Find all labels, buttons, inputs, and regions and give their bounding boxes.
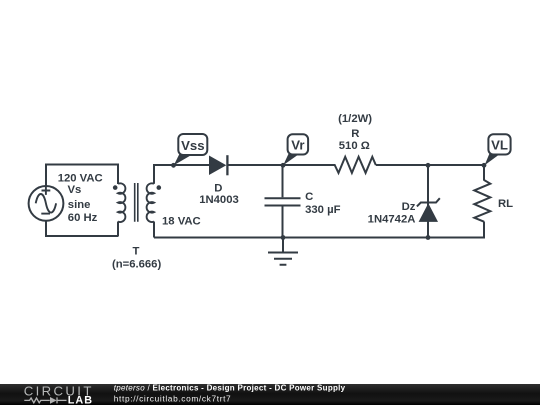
svg-text:120 VAC: 120 VAC xyxy=(58,173,103,185)
resistor RL zigzag xyxy=(474,180,490,222)
wire top of source loop xyxy=(46,164,118,166)
voltage source Vs circle xyxy=(29,186,64,221)
wire capacitor bottom lead xyxy=(282,206,284,237)
wire ground stub xyxy=(282,238,284,253)
node junction dot VL xyxy=(482,163,487,168)
resistor R zigzag xyxy=(335,157,376,173)
diode D cathode bar xyxy=(226,155,228,175)
svg-text:1N4003: 1N4003 xyxy=(199,194,239,206)
svg-text:Vss: Vss xyxy=(181,138,204,153)
svg-text:330 µF: 330 µF xyxy=(305,204,340,216)
wire resistor R to VL corner xyxy=(376,164,484,166)
svg-text:Dz: Dz xyxy=(402,201,416,213)
wire secondary top stub xyxy=(153,165,155,184)
transformer T core lines xyxy=(135,183,138,222)
svg-text:Vr: Vr xyxy=(291,138,304,153)
wire secondary bottom stub xyxy=(153,222,155,238)
svg-text:LAB: LAB xyxy=(68,395,94,405)
wire source loop left lower stub xyxy=(45,221,47,237)
svg-text:RL: RL xyxy=(498,198,513,210)
wire RL top lead xyxy=(483,165,485,181)
net label Vr box xyxy=(288,134,309,154)
svg-text:1N4742A: 1N4742A xyxy=(368,214,416,226)
svg-text:tpeterso / Electronics - Desig: tpeterso / Electronics - Design Project … xyxy=(114,383,346,392)
wire capacitor top lead xyxy=(282,165,284,197)
voltage source plus sign xyxy=(42,186,51,195)
svg-text:R: R xyxy=(351,128,359,140)
wire source loop right upper stub xyxy=(117,164,119,185)
wire secondary top to diode anode xyxy=(153,164,210,166)
net label VL box xyxy=(488,134,510,154)
svg-text:18 VAC: 18 VAC xyxy=(162,216,201,228)
zener diode Dz triangle xyxy=(419,203,438,222)
capacitor C plates xyxy=(265,198,301,205)
node junction dot zener bottom xyxy=(426,235,431,240)
footer bar xyxy=(0,384,540,405)
svg-text:510 Ω: 510 Ω xyxy=(339,140,370,152)
net label Vr pointer xyxy=(283,154,299,166)
voltage source sine wave xyxy=(36,194,56,213)
node junction dot Vr xyxy=(281,163,286,168)
node junction dot Vss xyxy=(171,163,176,168)
wire diode cathode to resistor R xyxy=(228,164,336,166)
transformer secondary polarity dot xyxy=(157,185,162,190)
svg-text:60 Hz: 60 Hz xyxy=(68,212,98,224)
transformer T primary winding xyxy=(118,183,125,222)
ground symbol xyxy=(268,253,298,265)
net label VL pointer xyxy=(485,154,501,166)
wire source loop left upper stub xyxy=(45,164,47,187)
node junction dot R-Dz xyxy=(426,163,431,168)
transformer primary polarity dot xyxy=(113,185,118,190)
svg-text:(1/2W): (1/2W) xyxy=(338,113,372,125)
zener diode Dz cathode bar xyxy=(417,198,440,206)
wire RL bottom lead xyxy=(483,222,485,239)
net label Vss pointer xyxy=(174,154,194,166)
wire bottom rail xyxy=(154,237,484,239)
svg-text:D: D xyxy=(214,183,222,195)
node junction dot ground xyxy=(281,235,286,240)
wire zener branch xyxy=(427,165,429,238)
transformer T secondary winding xyxy=(147,183,154,222)
CircuitLab logo squiggle diode xyxy=(50,397,57,404)
svg-text:Vs: Vs xyxy=(68,184,82,196)
net label Vss box xyxy=(178,134,207,155)
svg-text:sine: sine xyxy=(68,199,91,211)
CircuitLab logo circuit squiggle xyxy=(24,397,66,403)
wire source loop right lower stub xyxy=(117,222,119,237)
wire bottom of source loop xyxy=(46,235,118,237)
svg-text:http://circuitlab.com/ck7trt7: http://circuitlab.com/ck7trt7 xyxy=(114,393,232,403)
svg-text:C: C xyxy=(305,191,313,203)
svg-text:(n=6.666): (n=6.666) xyxy=(112,259,162,271)
svg-text:VL: VL xyxy=(491,138,508,153)
svg-text:T: T xyxy=(132,246,139,258)
voltage source minus sign xyxy=(41,213,50,215)
diode D triangle xyxy=(209,156,226,176)
